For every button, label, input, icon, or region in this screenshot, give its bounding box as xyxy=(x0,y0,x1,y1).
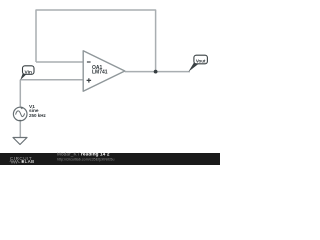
svg-text:Modar_K / reading 14 2: Modar_K / reading 14 2 xyxy=(57,152,110,157)
wire V1 to ground xyxy=(19,121,21,137)
wire Vin to V1 xyxy=(19,80,21,108)
svg-text:LAB: LAB xyxy=(25,159,35,164)
svg-text:LM741: LM741 xyxy=(92,70,108,76)
op-amp U1 triangle xyxy=(83,51,125,91)
svg-text:http://circuitlab.com/c35EfjzK: http://circuitlab.com/c35EfjzKNrb5u xyxy=(57,157,114,161)
svg-text:Vin: Vin xyxy=(25,69,32,75)
wire non-inverting input xyxy=(20,79,83,81)
source V1 xyxy=(13,107,27,121)
wire feedback loop top xyxy=(36,10,156,72)
op-amp minus pin mark xyxy=(87,61,91,63)
footer bar xyxy=(0,153,220,165)
ground xyxy=(13,138,27,145)
wire inverting input xyxy=(36,61,83,63)
node junction output xyxy=(154,70,158,74)
flag Vout xyxy=(188,55,207,71)
footer logo wave + LAB xyxy=(10,160,20,163)
wire output xyxy=(125,71,190,73)
svg-text:Vout: Vout xyxy=(196,59,206,64)
svg-text:250 kHz: 250 kHz xyxy=(29,113,47,118)
op-amp plus pin mark xyxy=(87,78,92,82)
flag Vin xyxy=(20,66,34,80)
